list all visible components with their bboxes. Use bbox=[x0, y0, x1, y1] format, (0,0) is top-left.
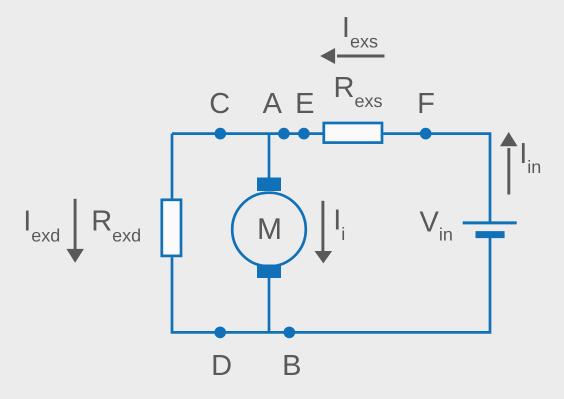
svg-text:E: E bbox=[295, 88, 314, 120]
svg-text:F: F bbox=[417, 88, 435, 120]
svg-text:D: D bbox=[211, 350, 232, 382]
svg-text:A: A bbox=[263, 88, 283, 120]
svg-text:B: B bbox=[282, 350, 301, 382]
svg-text:M: M bbox=[257, 213, 282, 246]
svg-text:C: C bbox=[209, 88, 230, 120]
